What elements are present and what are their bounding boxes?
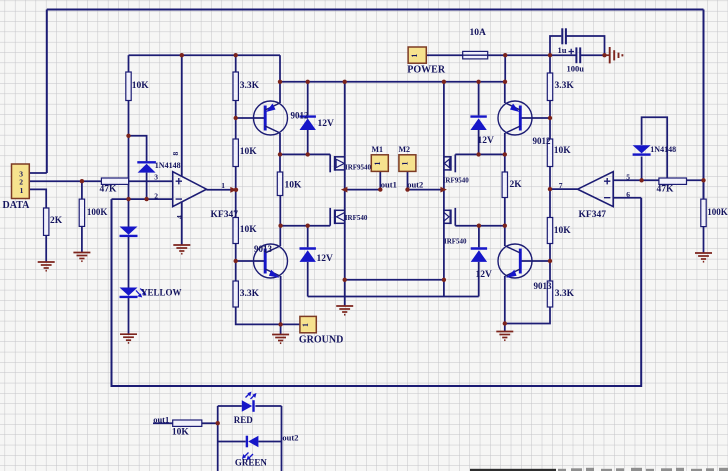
junction gate rail UR a xyxy=(476,152,480,156)
wire left bias column b xyxy=(235,167,237,218)
wire left bias column to GROUND port xyxy=(236,307,300,324)
wire DATA pin2 row xyxy=(29,180,101,182)
wire right H-bridge column xyxy=(443,82,445,280)
junction M1 pin xyxy=(378,187,382,191)
wire supply rail left segment xyxy=(129,54,281,56)
resistor R 47K right xyxy=(657,178,687,194)
wire 100K-data to ground xyxy=(81,226,83,252)
wire 47K right to op-amp pin3 xyxy=(129,180,173,182)
wire zener1 bottom xyxy=(307,130,309,154)
wire zener return rail xyxy=(308,262,479,297)
svg-text:3: 3 xyxy=(154,172,158,181)
svg-text:100K: 100K xyxy=(707,207,728,217)
junction cap node xyxy=(548,53,552,57)
wire 9013-right emitter to ground xyxy=(504,276,506,331)
junction 9012-left base xyxy=(234,116,238,120)
diode D2 1N4148 (right) xyxy=(633,145,676,155)
wire 3.3K column top xyxy=(235,55,237,72)
svg-text:3.3K: 3.3K xyxy=(555,81,575,91)
wire zener4 top xyxy=(478,226,480,248)
wire zener1 top xyxy=(307,82,309,116)
wire DATA pin3 to left vertical xyxy=(29,172,47,174)
LED D5 RED xyxy=(234,392,257,425)
wire 9012-left base xyxy=(236,117,266,119)
svg-text:1: 1 xyxy=(20,186,24,195)
diode D1 1N4148 (left) xyxy=(137,161,180,173)
svg-text:3.3K: 3.3K xyxy=(555,289,575,299)
svg-text:10K: 10K xyxy=(172,428,190,438)
resistor R 3.3K right top xyxy=(547,73,574,101)
resistor R 47K left xyxy=(100,178,129,195)
wire GREEN row left xyxy=(218,441,246,443)
wire right bias column c xyxy=(549,244,551,282)
resistor R 100K right xyxy=(701,199,728,227)
svg-text:GREEN: GREEN xyxy=(235,457,268,467)
wire op-amp2 output xyxy=(550,188,578,190)
connector M1 xyxy=(371,155,388,172)
junction diode branch xyxy=(126,134,130,138)
svg-text:7: 7 xyxy=(559,181,563,190)
wire pin2 row to left op-amp xyxy=(112,198,173,200)
wire 100u to earth xyxy=(580,54,604,56)
wire M1 pin xyxy=(379,171,381,189)
wire 1u cap loop xyxy=(550,36,605,55)
diode D3 (level chain) xyxy=(120,227,138,236)
wire left H-bridge column xyxy=(344,82,346,280)
svg-text:12V: 12V xyxy=(318,119,335,129)
wire gate rail upper-left xyxy=(280,153,330,155)
junction 3.3K rail xyxy=(234,53,238,57)
svg-text:9013: 9013 xyxy=(534,281,553,291)
junction pin8 rail xyxy=(180,53,184,57)
op-amp U1B KF347 (right, mirrored) xyxy=(578,172,614,220)
svg-text:9013: 9013 xyxy=(254,244,273,254)
wire gate rail upper-right xyxy=(455,153,505,155)
zener Z1 12V (upper-left) xyxy=(300,117,335,130)
svg-text:10K: 10K xyxy=(285,181,303,191)
mosfet M3 IRF9540 (left) xyxy=(330,154,371,172)
wire 1N4148-right top loop xyxy=(642,117,668,178)
svg-text:out1: out1 xyxy=(153,415,169,425)
svg-text:DATA: DATA xyxy=(3,200,31,211)
wire 3.3K-right top xyxy=(549,55,551,73)
wire zener2 bottom xyxy=(307,262,309,297)
wire out2 segment xyxy=(408,189,444,191)
wire right bias column b xyxy=(549,167,551,218)
arrowhead op1 output xyxy=(230,187,237,193)
svg-text:GROUND: GROUND xyxy=(299,334,343,345)
earth ground (power) xyxy=(610,47,623,63)
wire left bias column c xyxy=(235,244,237,282)
svg-text:1N4148: 1N4148 xyxy=(650,145,676,154)
wire 9012-right emitter top xyxy=(504,82,506,103)
junction M2 pin xyxy=(405,187,409,191)
wire top rail xyxy=(47,9,704,11)
ground (100K right) xyxy=(695,253,712,262)
watermark remnant bottom edge xyxy=(470,468,728,471)
wire outer column mid xyxy=(703,180,705,199)
mosfet M4 IRF540 (left) xyxy=(330,208,368,226)
resistor R 10K left mid-upper xyxy=(233,139,257,167)
wire op-amp2 pin6 row xyxy=(613,197,641,199)
junction earth node xyxy=(602,53,606,57)
svg-text:4: 4 xyxy=(175,215,184,219)
wire M2 pin xyxy=(407,171,409,189)
svg-text:100K: 100K xyxy=(87,207,108,217)
junction gate rail UR b xyxy=(503,152,507,156)
junction 9012-right base xyxy=(548,116,552,120)
junction LED splitter xyxy=(216,421,220,425)
wire left outer vertical xyxy=(46,10,48,174)
svg-text:2K: 2K xyxy=(50,216,63,226)
wire LED left vertical xyxy=(217,406,219,471)
wire right bias column a xyxy=(549,101,551,140)
junction 9013-left base xyxy=(234,259,238,263)
resistor R 3.3K left bottom xyxy=(233,281,260,307)
wire 9012-right collector down xyxy=(504,133,506,172)
DATA pin numbers xyxy=(19,169,23,195)
fuse F1 10A xyxy=(463,28,488,59)
junction zener3 xyxy=(476,80,480,84)
wire 9012-left collector top xyxy=(279,55,281,103)
wire 47K-right to outer column xyxy=(687,179,704,181)
wire gate rail lower-right xyxy=(455,225,505,227)
junction gate rail LR a xyxy=(477,224,481,228)
junction op1 output xyxy=(234,188,238,192)
wire 9013-left emitter to ground xyxy=(280,276,282,334)
wire 10K-left bottom chain xyxy=(128,101,130,227)
wire LED chain bottom xyxy=(128,297,130,334)
mosfet M5 IRF9540 (right) xyxy=(443,154,470,184)
svg-text:IRF540: IRF540 xyxy=(345,214,368,222)
svg-text:12V: 12V xyxy=(317,254,334,264)
connector DATA xyxy=(12,164,30,199)
svg-text:8: 8 xyxy=(171,152,180,156)
wire left H-bridge ground stem xyxy=(344,280,346,306)
wire LED chain mid xyxy=(128,237,130,288)
svg-text:M2: M2 xyxy=(399,145,411,154)
wire 10K-left top xyxy=(128,55,130,72)
junction pin2 row a xyxy=(126,197,130,201)
junction bridge bottom left xyxy=(343,278,347,282)
transistor Q3 9013 (left) xyxy=(254,244,288,278)
wire bottom feedback rail xyxy=(112,198,642,386)
wire 2K-right bottom xyxy=(504,198,506,247)
wire zener3 top xyxy=(478,82,480,116)
svg-text:POWER: POWER xyxy=(407,64,446,75)
svg-text:9012: 9012 xyxy=(533,136,552,146)
wire left bias column a xyxy=(235,101,237,140)
svg-text:10K: 10K xyxy=(240,225,258,235)
svg-text:10K: 10K xyxy=(132,81,150,91)
svg-text:5: 5 xyxy=(626,172,630,181)
wire fuse to caps rail xyxy=(488,54,576,56)
ground (9013 right emitter) xyxy=(496,332,513,341)
svg-text:9012: 9012 xyxy=(291,111,310,121)
wire right outer vertical xyxy=(703,10,705,200)
wire H-bridge bottom rail xyxy=(345,279,444,281)
svg-text:out2: out2 xyxy=(407,180,423,190)
wire 9013-right base xyxy=(521,260,551,262)
mosfet M6 IRF540 (right) xyxy=(444,208,467,246)
junction op2 output xyxy=(548,187,552,191)
op-amp U1A KF347 (left) xyxy=(173,172,238,220)
resistor R 3.3K left top xyxy=(233,72,260,101)
svg-text:100u: 100u xyxy=(567,64,585,74)
wire zener2 top xyxy=(307,226,309,248)
wire 9012-left emitter down xyxy=(279,133,281,172)
arrowhead out2 end xyxy=(440,187,447,193)
svg-text:47K: 47K xyxy=(657,184,675,194)
wire DATA pin1 to 2K xyxy=(29,189,46,208)
ground (H-bridge left) xyxy=(336,306,353,315)
svg-text:6: 6 xyxy=(626,190,630,199)
op-amp U1A pin labels xyxy=(154,152,225,220)
wire mid column below 10K xyxy=(279,196,281,247)
svg-text:10K: 10K xyxy=(554,226,572,236)
wire 100K-data branch xyxy=(81,181,83,199)
wire 10K bottom to LEDs xyxy=(202,422,218,424)
svg-text:1: 1 xyxy=(221,181,225,190)
junction gate rail LL b xyxy=(306,224,310,228)
junction 47K outer xyxy=(701,178,705,182)
junction pin2 row b xyxy=(144,197,148,201)
transistor Q2 9012 (right) xyxy=(498,101,551,146)
junction pin5 diode xyxy=(639,178,643,182)
ground (op-amp pin4) xyxy=(173,245,190,254)
wire right bias column to ground xyxy=(505,307,550,324)
svg-text:RED: RED xyxy=(234,415,254,425)
svg-text:1N4148: 1N4148 xyxy=(155,161,181,170)
junction DATA 100K xyxy=(80,179,84,183)
wire supply rail mid xyxy=(280,55,505,82)
wire earth stub xyxy=(605,54,610,56)
connector GROUND xyxy=(300,316,316,332)
op-amp U1B pin labels xyxy=(559,172,631,199)
zener Z2 12V (lower-left) xyxy=(300,249,334,265)
svg-text:2: 2 xyxy=(154,192,158,201)
resistor R 10K right mid-lower xyxy=(547,218,571,244)
svg-text:12V: 12V xyxy=(478,136,495,146)
junction rail corner xyxy=(278,80,282,84)
wire gate rail lower-left xyxy=(281,225,331,227)
junction fuse node xyxy=(503,53,507,57)
svg-text:12V: 12V xyxy=(476,270,493,280)
svg-text:M1: M1 xyxy=(372,145,384,154)
LED D6 GREEN xyxy=(235,436,268,468)
wire out1 to 10K bottom xyxy=(153,422,173,424)
svg-text:KF347: KF347 xyxy=(579,210,607,220)
svg-text:IRF9540: IRF9540 xyxy=(443,176,470,184)
wire GREEN row right xyxy=(258,441,281,443)
LED D4 YELLOW xyxy=(120,288,138,297)
svg-text:KF347: KF347 xyxy=(211,210,239,220)
wire out1 segment xyxy=(345,189,381,191)
wire 1N4148-right bottom xyxy=(641,157,643,181)
transistor Q1 9012 (left) xyxy=(254,101,310,135)
wire 9012-right base xyxy=(521,117,551,119)
connector M2 xyxy=(399,155,416,172)
resistor R 3.3K right bottom xyxy=(547,281,574,307)
ground (LED chain) xyxy=(120,334,137,343)
resistor R 10K gate-drive left xyxy=(277,172,302,196)
arrowhead out1 end xyxy=(341,187,348,193)
svg-text:3.3K: 3.3K xyxy=(240,81,260,91)
ground (2K DATA) xyxy=(38,262,55,271)
zener Z4 12V (lower-right) xyxy=(471,249,492,280)
svg-text:2K: 2K xyxy=(510,180,523,190)
svg-text:1: 1 xyxy=(400,162,409,166)
wire diode branch xyxy=(129,136,147,161)
resistor R 2K DATA xyxy=(44,208,63,235)
svg-text:10K: 10K xyxy=(240,147,258,157)
resistor R 10K LED xyxy=(172,420,202,438)
svg-text:3.3K: 3.3K xyxy=(240,289,260,299)
wire op-amp pin8 xyxy=(181,55,183,176)
capacitor C1 1u xyxy=(558,28,567,55)
svg-text:out1: out1 xyxy=(381,180,397,190)
junction gate rail LR b xyxy=(503,224,507,228)
connector POWER xyxy=(408,47,426,63)
resistor R 10K (input pull) xyxy=(126,72,149,101)
svg-text:1u: 1u xyxy=(558,45,567,55)
wire POWER pin to fuse xyxy=(426,54,462,56)
junction GROUND port node xyxy=(278,322,282,326)
junction zener1 xyxy=(306,80,310,84)
LED D4 arrows and label xyxy=(136,287,182,297)
junction 9013-right base xyxy=(548,259,552,263)
wire 1N4148-left bottom xyxy=(146,173,148,200)
wire op-amp pin4 to ground xyxy=(181,202,183,245)
junction 9012-right emitter xyxy=(503,80,507,84)
wire 2K to ground xyxy=(45,235,47,261)
svg-text:1: 1 xyxy=(373,162,382,166)
svg-text:10A: 10A xyxy=(470,28,487,38)
resistor R 10K left mid-lower xyxy=(233,218,257,244)
wire op-amp1 output xyxy=(207,189,237,191)
junction left bridge top xyxy=(343,80,347,84)
junction bridge bottom right xyxy=(442,278,446,282)
svg-text:1: 1 xyxy=(410,54,419,58)
zener Z3 12V (upper-right) xyxy=(470,117,494,146)
ground (100K DATA) xyxy=(73,253,90,262)
resistor R 10K right mid-upper xyxy=(547,139,571,167)
ground (GROUND port node) xyxy=(272,335,289,344)
transistor Q4 9013 (right) xyxy=(498,244,552,291)
wire 100K-right to ground xyxy=(703,227,705,253)
svg-text:10K: 10K xyxy=(554,146,572,156)
svg-text:IRF9540: IRF9540 xyxy=(345,163,372,171)
junction gate rail UL b xyxy=(306,152,310,156)
svg-text:out2: out2 xyxy=(282,433,298,443)
resistor R 2K right xyxy=(502,172,522,198)
wire RED row right xyxy=(255,405,281,407)
junction gate rail LL a xyxy=(278,224,282,228)
svg-text:IRF540: IRF540 xyxy=(444,238,467,246)
svg-text:47K: 47K xyxy=(100,185,118,195)
junction 9013-right ground xyxy=(503,321,507,325)
wire out2 vertical xyxy=(281,406,283,471)
capacitor C2 100u polarized xyxy=(567,47,585,73)
wire 9013-left base xyxy=(236,260,266,262)
junction gate rail UL a xyxy=(278,152,282,156)
wire op-amp2 pin5 row xyxy=(613,179,659,181)
wire zener3 bottom xyxy=(478,130,480,154)
svg-text:1: 1 xyxy=(301,323,310,327)
resistor R 100K DATA xyxy=(79,199,107,226)
junction right bridge top xyxy=(442,80,446,84)
wire RED row left xyxy=(218,405,242,407)
svg-text:YELLOW: YELLOW xyxy=(141,287,182,297)
